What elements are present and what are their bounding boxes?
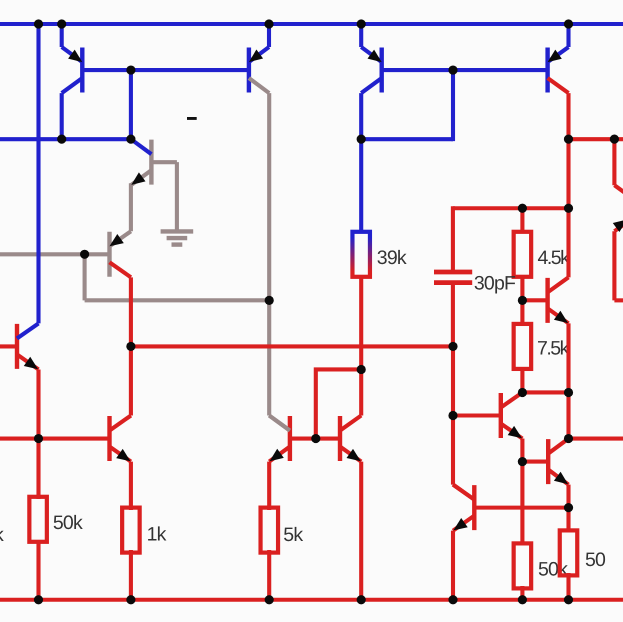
wire right branch diag to Q14 (offscreen) [614,185,623,201]
wire Q11 emitter down [359,462,363,600]
label R4 39k [377,247,407,269]
node Q14 branch [610,135,619,144]
wire Q8 emitter stub [60,24,64,47]
node Q12c bus [357,135,366,144]
wire Q12 collector drop [359,93,363,139]
node output/Q20c [564,434,573,443]
resistor R1 5k [261,508,279,553]
transistor Q6 [110,416,131,462]
wire Q22 collector diag [453,485,474,500]
node Q20e/Q22b/R10 [564,503,573,512]
wire Q12 collector to R4 [359,139,363,232]
wire Q16 emitter down [566,323,570,392]
node R8/Q17c [518,388,527,397]
capacitor C1 bottom plate [434,280,472,285]
wire Q12/Q13 base bus [382,68,548,72]
node Q17 base [448,411,457,420]
resistor R11 50k [514,543,532,588]
capacitor C1 top plate [434,270,472,275]
resistor R3 50k [29,497,46,542]
wire R11 bottom stub [520,586,524,600]
wire Q13c down to bias bus [566,139,570,208]
node Q10/Q11 bases [311,434,320,443]
node V-/R11 [518,595,527,604]
node Q13c bus [564,135,573,144]
svg-text:1k: 1k [147,524,167,546]
wire Q8 collector drop [60,93,64,141]
resistor R7 4.5k [514,232,532,277]
node Q11c branch [357,365,366,374]
wire Q6 base from left [0,436,110,440]
wire Q9 collector vertical [267,93,271,415]
wire Q11 collector vertical [359,277,363,415]
transistor Q9 [249,47,269,93]
node V+/Q13e [564,19,573,28]
node V+/Q9e [264,19,273,28]
wire cap bottom stub [451,283,455,346]
transistor Q13 [548,47,569,93]
wire Q9c to Q10 collector attach [269,416,290,431]
wire R8 top stub [520,300,524,323]
wire Q14 emitter exit right [614,298,623,302]
node Q12 base junction [448,65,457,74]
transistor Q17 [501,392,523,438]
label R2 1k [147,524,167,546]
node Q17e/Q20b [518,457,527,466]
transistor Q16 [548,277,569,323]
node Q1c bus [126,135,135,144]
wire R8 bottom stub [520,369,524,392]
wire Q2 emitter to Q4 emitter [129,183,133,231]
wire Q17 base lead [453,413,501,417]
wire Q16 collector up [566,208,570,277]
svg-text:30pF: 30pF [474,273,516,295]
resistor R4 39k [352,232,370,277]
wire base-tie branch [316,369,361,438]
wire miller bus y=346 [131,344,453,348]
node R7/R8/Q16b [518,296,527,305]
label R8 7.5k [537,338,570,360]
wire right branch down [612,139,616,185]
wire R1 bottom [267,550,271,600]
wire output bus right [569,436,623,440]
resistor R10 50 [560,530,578,575]
svg-text:7.5k: 7.5k [537,338,570,360]
transistor Q10 [269,416,290,462]
wire ground stem [175,162,179,229]
wire Q16e node down [566,392,570,438]
wire Q12 mirror bottom [361,137,453,141]
wire Q4 base from left [0,252,110,256]
label C1 30pF [474,273,516,295]
wire cap top stub [451,206,455,271]
label R7 4.5k [538,247,571,269]
transistor Q11 [340,416,361,462]
svg-text:5k: 5k [283,524,303,546]
wire Q9 emitter stub [267,24,271,47]
wire Q7 base stub [0,344,17,348]
label R1 5k [283,524,303,546]
label R3 50k [53,512,83,534]
wire Q2 base lead [151,160,177,164]
wire Q10/Q11 base tie [290,436,340,440]
node bias/R7 [518,204,527,213]
svg-text:50k: 50k [53,512,83,534]
wire R2 bottom [129,550,133,600]
wire R10 top stub [566,508,570,532]
transistor Q22 [453,485,474,531]
node gray/Q9c [265,296,274,305]
wire V- bottom rail [0,598,623,602]
node bias/Q16c [564,204,573,213]
wire R7 top stub [520,208,524,231]
wire Q16 base lead [522,298,547,302]
svg-text:39k: 39k [377,247,407,269]
node V+/Q8e [57,19,66,28]
wire Q1 collector bus [0,137,131,141]
wire Q17 emitter down [520,439,524,462]
wire Q8 base branch drop [129,70,133,139]
node Q8 base junction [126,65,135,74]
resistor R8 7.5k [514,324,532,369]
wire Q12 mirror drop [451,70,455,141]
wire bias bus y=208 [453,206,569,210]
ground GND1 [161,231,194,244]
wire R7 bottom stub [520,277,524,300]
wire Q22 emitter down [451,531,455,600]
node Q8c bus [57,135,66,144]
node Q4c/miller [126,342,135,351]
wire Q20 emitter down [566,485,570,508]
label cropped k (left edge) [0,524,4,546]
transistor Q2 [131,139,152,185]
transistor Q7 [17,323,39,369]
wire miller node vertical [451,346,455,484]
wire Q7 collector vertical [36,22,40,323]
label R10 50 [585,549,606,571]
node V-/Q11e [357,595,366,604]
wire Q13 emitter stub [566,24,570,47]
transistor Q20 [548,439,568,485]
wire Q22 base bus [474,506,568,510]
node V-/R3 [34,595,43,604]
node V-/R10 [564,595,573,604]
wire R3 bottom [36,540,40,600]
wire R10 bottom stub [566,573,570,600]
wire R11 top [520,462,524,545]
wire Q10 emitter down [267,462,271,510]
node V-/R2 [126,595,135,604]
wire R4 39k gradient def [0,0,1,1]
node Q4 base branch [80,250,89,259]
transistor Q8 [62,47,83,93]
wire Q13 collector bus right [569,137,623,141]
svg-text:50: 50 [585,549,606,571]
transistor Q12 [361,47,382,93]
wire Q20 base lead [522,460,548,464]
wire Q8/Q9 base bus [82,68,249,72]
wire Q7 emitter down [36,369,40,499]
node V-/R1 [265,595,274,604]
wire gray branch across [85,298,270,302]
wire Q13 collector drop [566,93,570,139]
svg-text:4.5k: 4.5k [538,247,571,269]
wire R8/Q17c junction bus [522,390,568,394]
wire Q12 emitter stub [359,24,363,47]
node V+/Q7c [34,19,43,28]
wire Q14 emitter down [612,231,616,300]
label inverting input minus [187,117,197,120]
node V+/Q12e [357,19,366,28]
transistor Q14 emitter diag (offscreen) [613,216,623,232]
node Q16e junction [564,388,573,397]
wire Q4 collector drop [129,277,133,415]
wire gray branch down [83,252,87,300]
transistor Q4 [110,231,131,277]
label R11 50k [538,559,568,581]
resistor R2 1k [122,508,139,553]
node V-/Q22e [448,595,457,604]
node miller/cap [448,342,457,351]
node Q7e/Q6b [34,434,43,443]
wire V+ top rail [0,22,623,26]
wire Q6 emitter down [129,462,133,510]
